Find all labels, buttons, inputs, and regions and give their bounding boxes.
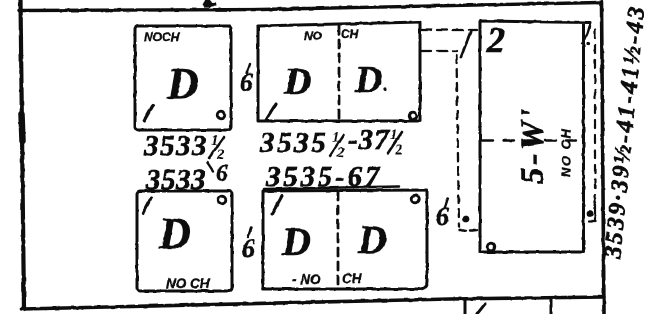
building 3535half entrance tick bbox=[266, 104, 276, 120]
building 3535-37 dashed divider bbox=[337, 192, 340, 288]
dimension arrow foot bbox=[589, 205, 596, 222]
svg-text:3533: 3533 bbox=[143, 130, 208, 162]
lower block lot line 1 bbox=[464, 300, 467, 314]
svg-text:NOCH: NOCH bbox=[144, 30, 180, 44]
svg-text:6: 6 bbox=[436, 202, 449, 231]
tick on tie line bbox=[461, 31, 471, 57]
street line left bbox=[21, 0, 25, 309]
short dashes below survey dot bbox=[459, 229, 466, 231]
svg-text:D: D bbox=[357, 217, 387, 262]
street line top bbox=[19, 3, 600, 11]
building 3533 outline bbox=[137, 191, 232, 291]
svg-text:CH: CH bbox=[342, 271, 362, 286]
lower block lot line 2 bbox=[550, 298, 553, 314]
svg-text:NO CH: NO CH bbox=[166, 276, 210, 291]
survey dot bbox=[463, 216, 470, 223]
building 3535-37 outline bbox=[263, 190, 427, 289]
svg-text:2: 2 bbox=[486, 20, 505, 60]
building 3533 porch circle bbox=[218, 196, 226, 204]
dashed tie line upper right of 3535half bbox=[421, 29, 477, 31]
building 3535-37 porch circle bbox=[411, 195, 419, 203]
building 2 dashed interior division bbox=[482, 139, 576, 141]
svg-text:- NO: - NO bbox=[292, 272, 321, 287]
label 3533half fraction bbox=[211, 133, 225, 163]
dashed lot line vertical bbox=[457, 55, 460, 227]
svg-text:D: D bbox=[354, 59, 382, 101]
building 3535-37 entrance tick bbox=[272, 196, 282, 214]
dashed dimension line along right of building 2 bbox=[594, 30, 596, 203]
svg-text:CH: CH bbox=[341, 27, 359, 41]
svg-text:6: 6 bbox=[216, 161, 228, 187]
svg-text:D: D bbox=[158, 209, 191, 258]
building 3535half party wall dashed divider bbox=[338, 26, 341, 121]
svg-text:5-W': 5-W' bbox=[515, 106, 551, 184]
svg-text:6: 6 bbox=[242, 234, 255, 263]
svg-text:2: 2 bbox=[336, 145, 345, 161]
building 2 corner hook bbox=[582, 23, 590, 44]
svg-text:3535: 3535 bbox=[259, 127, 328, 159]
building 3533half porch circle bbox=[217, 111, 225, 119]
building 3535half outline bbox=[258, 22, 420, 121]
building 2 porch circle bbox=[487, 243, 495, 251]
label 3533 tick and 6 bbox=[207, 162, 213, 171]
building 3533half outline bbox=[135, 26, 231, 130]
svg-text:NO CH: NO CH bbox=[559, 128, 574, 177]
building 3535half porch circle bbox=[409, 112, 417, 120]
svg-text:D: D bbox=[281, 219, 311, 264]
dashed tie line lower right of 3535half bbox=[421, 50, 457, 52]
dimension arrow dot bbox=[587, 210, 594, 217]
lower block entrance tick bbox=[477, 304, 485, 314]
ink dot after right D bbox=[383, 87, 386, 90]
svg-text:NO: NO bbox=[304, 29, 323, 43]
street line bottom bbox=[22, 297, 604, 309]
north arrow on top street line bbox=[202, 0, 217, 8]
svg-text:2: 2 bbox=[394, 142, 403, 158]
building 3533 entrance tick bbox=[143, 198, 151, 213]
building 3533half entrance tick bbox=[144, 105, 153, 121]
building 2 outline bbox=[480, 21, 590, 252]
svg-text:-37: -37 bbox=[348, 124, 390, 156]
svg-text:D: D bbox=[283, 61, 311, 103]
street line right bbox=[602, 2, 605, 314]
svg-text:D: D bbox=[166, 59, 199, 108]
